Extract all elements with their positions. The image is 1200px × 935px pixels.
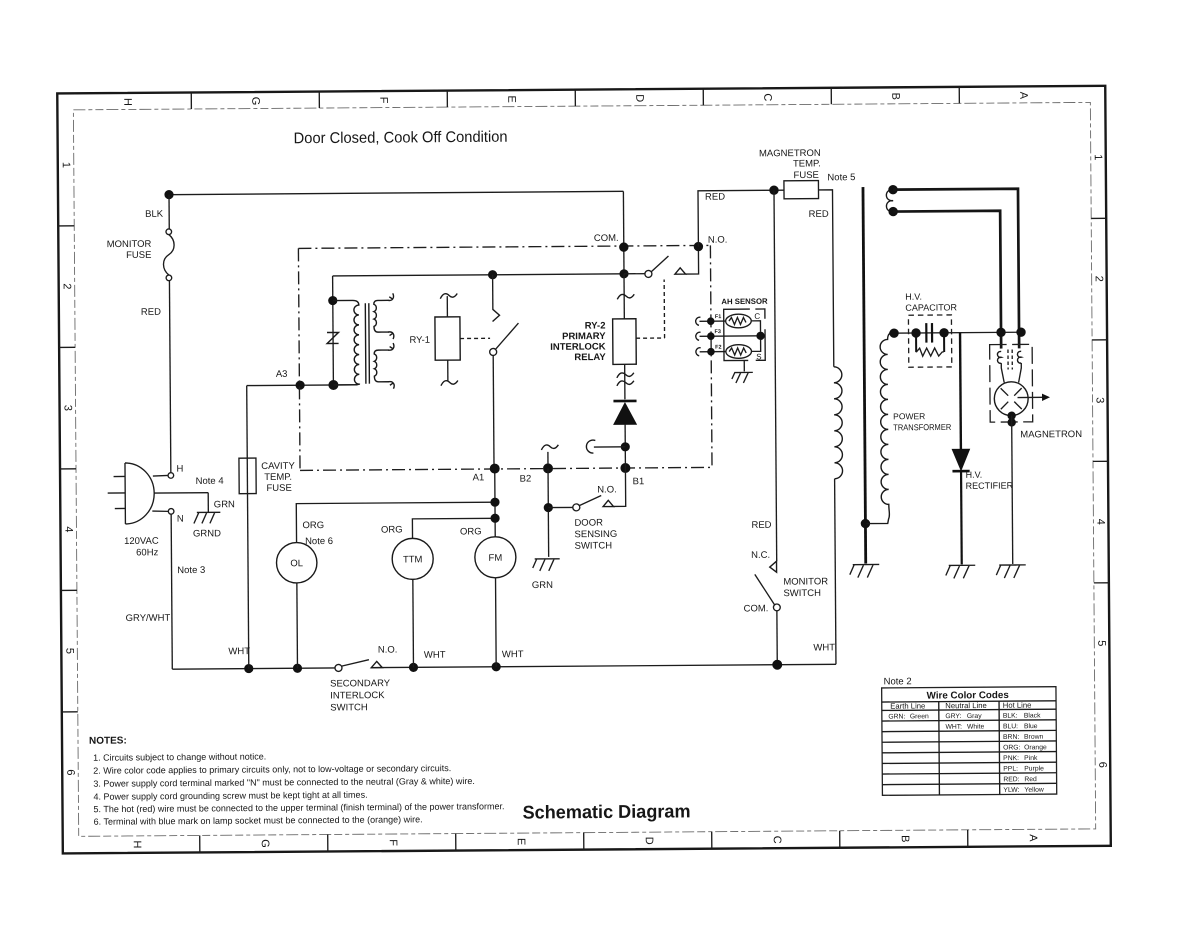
svg-text:S: S <box>756 352 761 361</box>
svg-text:TEMP.: TEMP. <box>793 158 821 169</box>
power transformer HV secondary coil <box>865 333 891 523</box>
node: capacitor left junction <box>911 328 920 337</box>
svg-text:RY-1: RY-1 <box>409 335 430 346</box>
capacitor plates <box>926 323 932 343</box>
wire: COM column vertical (top wire down through COM terminal) <box>622 191 625 273</box>
wire: cavity fuse column from A3 wire to fuse <box>246 386 249 458</box>
svg-text:ORG:: ORG: <box>1003 744 1021 751</box>
wire: magnetron to ground <box>1012 416 1013 564</box>
svg-text:OL: OL <box>290 558 303 569</box>
node: A3 terminal on control boundary <box>295 381 304 390</box>
svg-text:POWER: POWER <box>893 411 925 421</box>
svg-text:2: 2 <box>61 283 73 289</box>
svg-text:6: 6 <box>1096 762 1108 768</box>
AH sensor ground stub <box>743 360 745 371</box>
wire: bus corner up to primary coil bottom <box>835 479 836 664</box>
svg-text:AH SENSOR: AH SENSOR <box>721 297 768 306</box>
svg-text:B: B <box>889 93 901 100</box>
wire: B1 down to door sensing contact <box>613 468 626 506</box>
svg-text:6: 6 <box>64 769 76 775</box>
svg-text:FM: FM <box>488 553 502 564</box>
svg-text:Note 5: Note 5 <box>827 172 855 183</box>
svg-text:C: C <box>771 836 783 844</box>
motor OL circle <box>276 542 317 583</box>
svg-text:A: A <box>1027 834 1039 842</box>
svg-text:INTERLOCK: INTERLOCK <box>330 690 385 701</box>
svg-text:A3: A3 <box>276 369 288 380</box>
wire: left vertical from fuse to H terminal <box>169 281 170 473</box>
svg-text:RED: RED <box>809 209 829 220</box>
border zone ticks right <box>1091 218 1109 583</box>
choke core dashes <box>1008 349 1012 369</box>
svg-text:H: H <box>176 464 183 475</box>
svg-text:Red: Red <box>1024 776 1037 783</box>
relay RY-1 rectangle <box>435 317 460 360</box>
svg-text:BLK: BLK <box>145 209 164 220</box>
node: N.O. terminal (RY-2 contact) <box>694 242 703 251</box>
wire: TTM bottom to bus <box>412 579 415 667</box>
ground (transformer core) <box>850 564 880 577</box>
plug 120VAC (half disc with prongs) <box>107 462 208 524</box>
wires: chokes to magnetron tube <box>1001 363 1021 383</box>
node: HV winding to core junction <box>861 519 870 528</box>
AH sensor assembly <box>695 297 768 384</box>
RY-2 mechanical linkage (dashed) <box>636 280 665 339</box>
border zone ticks left <box>58 226 78 712</box>
wire color codes table <box>882 687 1057 796</box>
svg-text:RED: RED <box>705 192 725 203</box>
svg-text:WHT: WHT <box>813 642 835 653</box>
node: internal wire junction at RY-2 column <box>619 269 628 278</box>
svg-text:3: 3 <box>62 405 74 411</box>
secondary lower lead curls <box>388 343 394 350</box>
svg-text:FUSE: FUSE <box>266 483 291 494</box>
svg-text:B2: B2 <box>520 474 532 485</box>
magnetron filament choke 1 <box>997 351 1001 363</box>
svg-text:GRY:: GRY: <box>945 713 961 720</box>
svg-text:N.O.: N.O. <box>597 484 617 495</box>
wire: left vertical above monitor fuse <box>168 195 170 229</box>
svg-text:F: F <box>387 839 399 846</box>
node: internal wire junction at RY-1 switch column <box>488 270 497 279</box>
svg-text:C: C <box>761 93 773 101</box>
svg-text:DOOR: DOOR <box>574 517 603 528</box>
svg-text:A1: A1 <box>473 472 485 483</box>
svg-text:4. Power supply cord groundin: 4. Power supply cord grounding screw mus… <box>93 790 367 802</box>
node: monitor switch bus junction <box>772 660 782 670</box>
svg-text:E: E <box>505 95 517 102</box>
svg-text:Note 2: Note 2 <box>884 676 912 687</box>
svg-text:FUSE: FUSE <box>126 250 151 261</box>
svg-text:120VAC: 120VAC <box>124 536 159 547</box>
svg-text:TEMP.: TEMP. <box>264 472 292 483</box>
svg-text:YLW:: YLW: <box>1003 787 1019 794</box>
ground (door sensing GRN) <box>533 559 560 571</box>
wire: HV rectifier column (thick) <box>959 333 962 450</box>
svg-text:1: 1 <box>1092 154 1104 160</box>
border numbers right 1-6 <box>1092 154 1108 768</box>
wire: filament lead 1 (thick) to magnetron right choke <box>893 189 1019 350</box>
node: magnetron cathode terminal <box>1007 411 1015 419</box>
svg-text:Note 3: Note 3 <box>177 565 205 576</box>
node: A1 terminal <box>490 464 500 474</box>
secondary interlock switch: pivot circle, blade, N.O. contact triangle <box>335 660 382 672</box>
svg-text:Blue: Blue <box>1024 723 1038 730</box>
svg-text:NOTES:: NOTES: <box>89 735 127 746</box>
node: bus junction TTM column <box>409 663 418 672</box>
control unit boundary (dash-dot box) <box>298 245 712 470</box>
svg-text:4: 4 <box>1094 519 1106 525</box>
svg-text:A: A <box>1017 92 1029 100</box>
svg-text:Yellow: Yellow <box>1024 787 1044 794</box>
wire: cavity fuse through-line and down to bus <box>247 458 249 668</box>
svg-text:RED: RED <box>751 520 771 531</box>
svg-text:WHT: WHT <box>228 646 250 657</box>
H.V. rectifier diode (filled triangle + bar) <box>952 449 969 470</box>
svg-text:Neutral Line: Neutral Line <box>945 701 987 710</box>
svg-text:G: G <box>249 97 261 106</box>
relay RY-2 rectangle <box>613 319 637 365</box>
magnetron temp fuse rectangle <box>784 181 819 199</box>
thermistor F2-S (oval + zigzag) <box>726 345 752 359</box>
terminal H circle <box>168 473 174 479</box>
svg-text:Orange: Orange <box>1024 744 1047 751</box>
motor FM circle <box>475 537 516 578</box>
node: choke 1 junction <box>996 328 1005 337</box>
svg-text:RELAY: RELAY <box>574 352 606 363</box>
border zone ticks bottom <box>200 830 968 853</box>
node: bus junction FM column <box>492 662 501 671</box>
svg-text:GRN: GRN <box>214 499 235 510</box>
node: transformer top junction <box>328 296 337 305</box>
svg-text:H: H <box>121 98 133 106</box>
svg-text:N: N <box>177 514 184 525</box>
svg-text:COM.: COM. <box>594 233 619 244</box>
svg-text:BLK:: BLK: <box>1003 713 1018 720</box>
svg-text:Door Closed, Cook Off Conditio: Door Closed, Cook Off Condition <box>294 129 508 148</box>
wire: HV output line (transformer to magnetron) <box>889 331 1021 334</box>
svg-text:Purple: Purple <box>1024 765 1044 772</box>
svg-text:RED:: RED: <box>1003 776 1019 783</box>
wire: RED column down to monitor switch <box>774 190 777 561</box>
wire: top BLK line from monitor fuse node to COM column <box>169 191 623 194</box>
ground GRND (plug) <box>194 512 221 523</box>
svg-text:TTM: TTM <box>403 554 423 565</box>
svg-text:D: D <box>643 837 655 845</box>
svg-text:Earth Line: Earth Line <box>890 701 925 710</box>
svg-text:Note 6: Note 6 <box>305 536 333 547</box>
wire: internal wire COM to transformer <box>333 274 624 276</box>
wire: RED wire from N.O. terminal up and right to magnetron temp fuse <box>698 190 784 246</box>
wire: rectifier to ground <box>960 471 963 564</box>
RY-1 contact switch: chevron fixed contact, blade, pivot circle <box>489 275 519 469</box>
svg-text:SWITCH: SWITCH <box>330 702 368 713</box>
monitor fuse (two circles + S curve) <box>163 229 174 281</box>
bleed resistor (stubs + zigzag) <box>916 333 944 352</box>
svg-text:3: 3 <box>1094 397 1106 403</box>
wire: filament lead 2 (thick) to magnetron left choke <box>893 211 1001 350</box>
svg-text:1. Circuits subject to change: 1. Circuits subject to change without no… <box>93 751 266 762</box>
border inner dashed frame <box>73 102 1095 836</box>
diode on RY-2 column (bar + filled triangle) <box>613 401 636 424</box>
ground (H.V. rectifier) <box>946 565 976 578</box>
label RY-2 PRIMARY INTERLOCK RELAY <box>550 320 606 363</box>
svg-text:PNK:: PNK: <box>1003 755 1019 762</box>
node: B1 terminal <box>620 463 630 473</box>
node: COM terminal <box>619 242 628 251</box>
svg-text:Black: Black <box>1024 712 1041 719</box>
transformer filament winding (top) <box>886 190 893 212</box>
low voltage transformer: left vertical with Z surge element <box>327 276 339 385</box>
wire: A1 column from boundary to FM and bus <box>495 469 496 667</box>
svg-text:ORG: ORG <box>460 526 482 537</box>
node: magnetron box exit <box>1007 418 1015 426</box>
node: filament top lead <box>888 185 897 194</box>
svg-text:2: 2 <box>1093 276 1105 282</box>
node: TTM wire junction on A1 column <box>490 514 499 523</box>
node: HV coil top <box>889 328 898 337</box>
node: bus junction OL column <box>293 664 302 673</box>
magnetron antenna arrow <box>1018 396 1043 398</box>
svg-text:F: F <box>377 97 389 104</box>
svg-text:Wire Color Codes: Wire Color Codes <box>927 690 1010 702</box>
svg-text:WHT: WHT <box>502 649 524 660</box>
svg-text:SECONDARY: SECONDARY <box>330 678 391 689</box>
node: OL wire junction on A1 column <box>490 498 499 507</box>
wire: A3 horizontal wire <box>247 384 358 387</box>
F3 wire <box>700 335 761 337</box>
border letters top H G F E D C B A <box>121 91 1029 106</box>
RY-2 top lead with break curl <box>623 274 625 319</box>
RY-1 top lead with break curl <box>446 296 448 317</box>
svg-text:Schematic Diagram: Schematic Diagram <box>522 800 690 822</box>
svg-text:White: White <box>967 723 985 730</box>
svg-text:SWITCH: SWITCH <box>575 540 613 551</box>
cavity temp fuse rectangle <box>239 458 256 494</box>
RY-2 contact switch: pivot circle, blade, N.O. triangle contact <box>624 251 699 278</box>
hook stub left of B1 <box>594 446 625 448</box>
svg-text:RECTIFIER: RECTIFIER <box>966 480 1014 490</box>
svg-text:Green: Green <box>910 713 929 720</box>
S lead <box>751 340 760 352</box>
RY-1 mechanical linkage (dashed) <box>460 337 490 339</box>
transformer secondary winding upper <box>374 300 389 332</box>
node: magnetron fuse junction <box>769 185 778 194</box>
svg-text:WHT: WHT <box>424 650 446 661</box>
svg-text:F3: F3 <box>715 329 721 335</box>
border numbers left 1-6 <box>60 162 76 776</box>
svg-text:B: B <box>899 835 911 842</box>
svg-text:ORG: ORG <box>381 524 403 535</box>
wire: RY-2 column diode to B1 <box>624 424 626 468</box>
magnetron tube (circle with X) <box>994 382 1028 416</box>
RY-2 bottom lead with double break curl <box>624 364 626 399</box>
magnetron dashed box <box>990 344 1033 422</box>
svg-text:Note 4: Note 4 <box>196 476 224 487</box>
power transformer primary coil <box>834 367 843 479</box>
svg-text:H.V.: H.V. <box>905 292 922 302</box>
svg-text:MONITOR: MONITOR <box>107 239 152 250</box>
border zone ticks top <box>191 87 959 109</box>
svg-text:H: H <box>131 840 143 848</box>
svg-text:G: G <box>259 839 271 848</box>
svg-text:F2: F2 <box>715 345 721 351</box>
wire: OL feed ORG wire from A1 column <box>296 502 495 542</box>
svg-text:CAPACITOR: CAPACITOR <box>905 302 957 312</box>
svg-text:MONITOR: MONITOR <box>783 576 828 587</box>
svg-text:N.O.: N.O. <box>708 235 728 246</box>
secondary upper lead curls <box>388 293 394 300</box>
svg-text:SENSING: SENSING <box>574 529 617 540</box>
svg-text:ORG: ORG <box>302 520 324 531</box>
svg-text:N.C.: N.C. <box>751 550 770 561</box>
wire: fuse right side down to transformer primary <box>818 190 833 367</box>
node: filament bottom lead <box>888 207 897 216</box>
svg-text:PPL:: PPL: <box>1003 766 1018 773</box>
svg-text:60Hz: 60Hz <box>136 547 159 558</box>
break curl above B2 <box>541 445 558 450</box>
svg-text:5: 5 <box>1095 640 1107 646</box>
svg-text:B1: B1 <box>633 476 645 487</box>
node: transformer bottom junction (on A3 wire) <box>328 380 338 390</box>
svg-text:GRND: GRND <box>193 528 221 539</box>
node: junction top-left (BLK) <box>164 190 173 199</box>
svg-text:C: C <box>754 312 760 321</box>
node: bus junction cavity-fuse column <box>244 664 253 673</box>
node: B2 terminal <box>543 463 553 473</box>
node: choke 2 junction <box>1016 327 1025 336</box>
transformer secondary winding lower <box>374 350 389 382</box>
wire: left vertical N to bottom bus <box>171 514 172 669</box>
svg-text:GRN: GRN <box>532 580 553 591</box>
svg-text:H.V.: H.V. <box>966 470 983 480</box>
node: capacitor right junction <box>939 328 948 337</box>
border outer frame <box>57 86 1111 854</box>
H.V. capacitor dashed box <box>908 315 951 367</box>
svg-text:BRN:: BRN: <box>1003 734 1019 741</box>
ground (magnetron) <box>996 565 1026 578</box>
wire: B2 ground drop <box>547 511 549 556</box>
terminal N circle <box>168 509 174 515</box>
NOTES block <box>89 733 505 827</box>
power transformer core (thick line) <box>863 187 866 563</box>
svg-text:D: D <box>633 94 645 102</box>
svg-text:4: 4 <box>62 526 74 532</box>
svg-text:5: 5 <box>63 648 75 654</box>
svg-text:GRN:: GRN: <box>888 713 905 720</box>
svg-text:BLU:: BLU: <box>1003 723 1018 730</box>
svg-text:FUSE: FUSE <box>793 170 818 181</box>
svg-text:CAVITY: CAVITY <box>261 461 295 472</box>
AH sensor box <box>724 309 766 361</box>
svg-text:F1: F1 <box>715 314 721 320</box>
wire: bottom WHT bus (right portion) <box>371 664 836 667</box>
thermistor F1-C (oval + zigzag) <box>726 314 752 328</box>
transformer primary coil <box>333 300 360 385</box>
svg-text:N.O.: N.O. <box>378 644 398 655</box>
svg-text:RED: RED <box>141 307 161 318</box>
svg-text:COM.: COM. <box>744 603 769 614</box>
svg-text:WHT:: WHT: <box>945 724 962 731</box>
RY-1 bottom lead with break curl <box>447 360 449 381</box>
svg-text:E: E <box>515 838 527 845</box>
svg-text:Brown: Brown <box>1024 734 1044 741</box>
magnetron filament choke 2 <box>1017 351 1021 363</box>
wire: ground stub from plug middle prong <box>207 493 209 513</box>
svg-text:GRY/WHT: GRY/WHT <box>126 613 171 624</box>
svg-text:1: 1 <box>60 162 72 168</box>
svg-text:Pink: Pink <box>1024 755 1038 762</box>
node: hook-stub junction above B1 <box>621 442 630 451</box>
label MAGNETRON TEMP. FUSE <box>759 148 821 181</box>
motor TTM circle <box>392 538 433 579</box>
svg-text:MAGNETRON: MAGNETRON <box>1020 429 1082 440</box>
svg-text:SWITCH: SWITCH <box>783 588 821 599</box>
wire: TTM feed ORG wire from A1 column <box>412 518 495 538</box>
border letters bottom H G F E D C B A <box>131 834 1039 849</box>
svg-text:RY-2: RY-2 <box>585 320 606 331</box>
transformer core (two bars) <box>365 303 369 384</box>
svg-text:Hot Line: Hot Line <box>1003 701 1032 710</box>
monitor switch: N.C. contact triangle, blade, COM pivot circle <box>755 561 781 665</box>
svg-text:Gray: Gray <box>967 713 982 720</box>
wire: bottom WHT bus (left of secondary interlock sw) <box>172 668 335 669</box>
F2 wire <box>700 351 726 353</box>
C lead <box>751 321 760 332</box>
F1 wire <box>699 320 725 322</box>
door sensing switch: wire from B2, pivot, blade, triangle contact <box>543 468 613 512</box>
svg-text:TRANSFORMER: TRANSFORMER <box>893 422 951 432</box>
wire: OL bottom to bus <box>296 583 299 668</box>
